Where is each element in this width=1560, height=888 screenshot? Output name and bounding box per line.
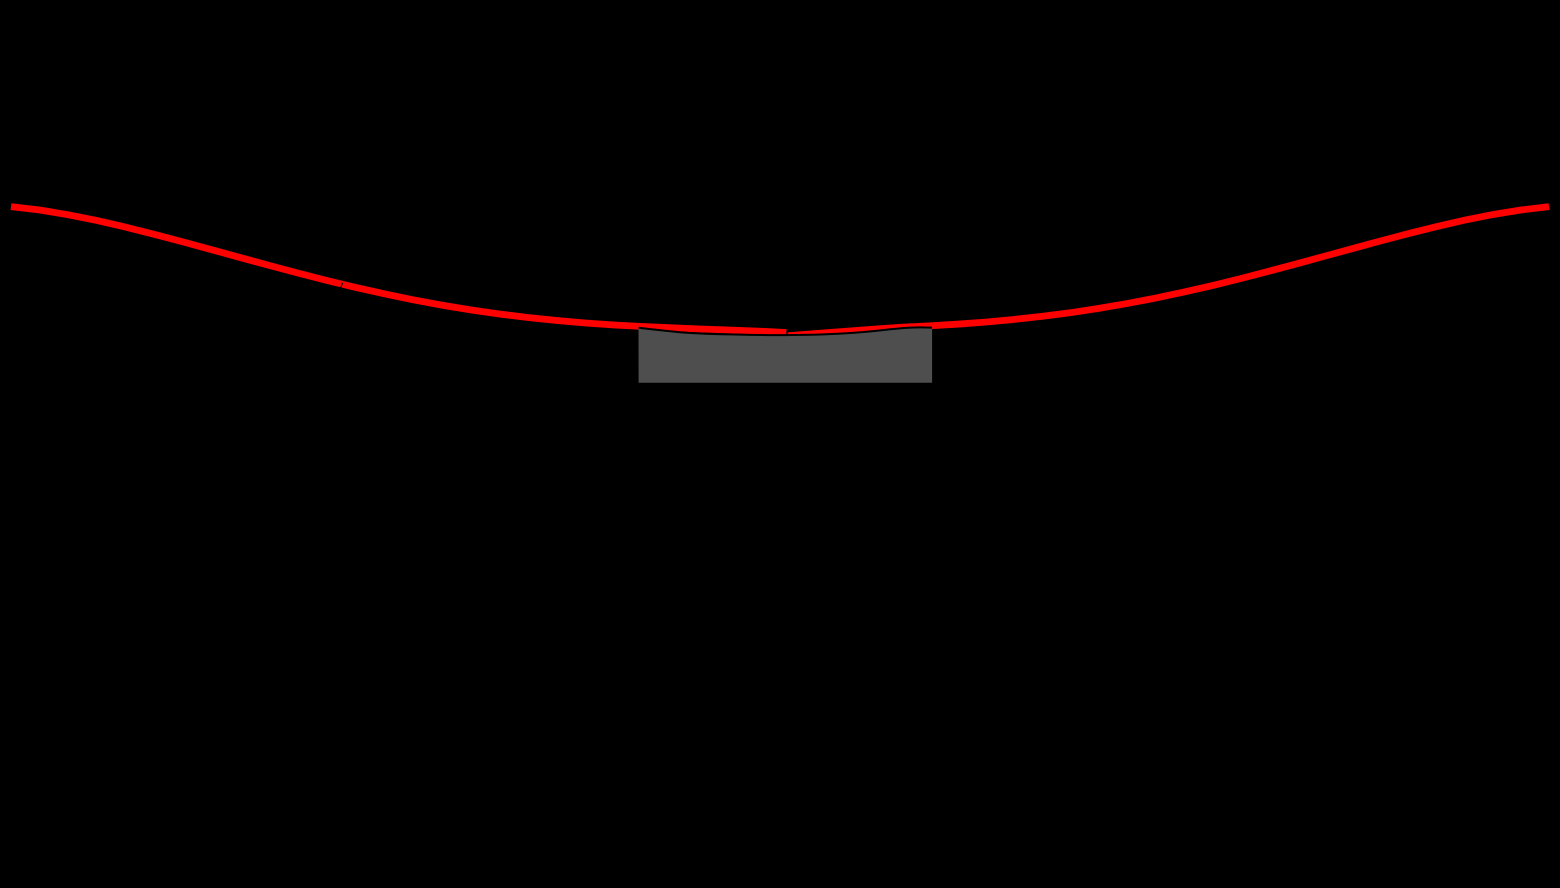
nick in rope at x=341 [341,283,343,288]
block top edge (black outline over rope) [639,327,933,335]
block: gray mass body [639,327,933,382]
wire: red rope left segment [11,207,786,333]
wire: red rope right segment [788,207,1549,336]
